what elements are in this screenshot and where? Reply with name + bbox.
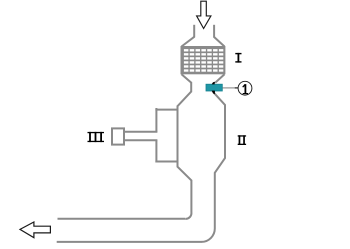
outlet pipe top wall (58, 218, 186, 220)
label I (235, 53, 241, 63)
vessel II left wall (178, 106, 192, 219)
neck lower-left diagonal (178, 92, 192, 107)
inlet pipe left wall (193, 25, 195, 37)
feed pipe bottom wall (125, 139, 157, 141)
inlet arrow (top, hollow, pointing down) (197, 1, 211, 28)
outlet pipe bottom wall (57, 241, 202, 243)
side chamber left wall upper (155, 108, 157, 132)
feeder box III (112, 128, 124, 144)
vessel II right wall (201, 104, 225, 242)
nozzle black tip lower (212, 91, 215, 95)
feed pipe top wall (125, 131, 157, 133)
digit 1 (242, 84, 248, 94)
grid white cells (184, 49, 223, 51)
outlet arrow (hollow, pointing left) (20, 222, 50, 238)
side chamber left wall lower (155, 140, 157, 162)
side chamber top edge (155, 109, 177, 111)
funnel right diagonal (214, 37, 225, 47)
leader dark end segment (235, 87, 238, 89)
label III (88, 132, 105, 142)
grid bed I (catalyst grid) (182, 47, 225, 73)
injector nozzle (teal) (206, 84, 222, 91)
leader line to circled 1 (223, 87, 236, 89)
neck upper-left diagonal (182, 74, 192, 82)
neck lower-right diagonal (214, 93, 225, 105)
inlet pipe right wall (213, 25, 215, 37)
neck left vertical (190, 82, 192, 92)
side chamber bottom edge (155, 161, 177, 163)
callout circle 1 (238, 81, 252, 95)
label II (238, 135, 246, 145)
funnel left diagonal (182, 37, 195, 47)
nozzle black tip upper (212, 82, 215, 85)
neck upper-right diagonal (215, 74, 224, 83)
